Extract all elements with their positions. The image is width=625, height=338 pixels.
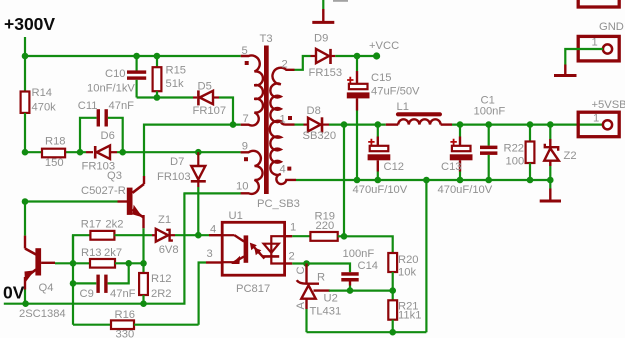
junction C15 bottom: [354, 177, 361, 184]
svg-text:1: 1: [592, 37, 598, 49]
tap pin 1: [281, 121, 295, 124]
junction U2 cathode: [303, 260, 310, 267]
transistor Q4 2SC1384: [19, 236, 66, 320]
svg-text:R15: R15: [166, 65, 187, 77]
resistor R22: [504, 125, 535, 180]
core: [264, 46, 269, 195]
capacitor C10: [87, 56, 146, 98]
wire +5VSB rail D8 to L1: [329, 123, 386, 125]
node +VCC endpoint: [373, 52, 380, 59]
svg-text:470uF/10V: 470uF/10V: [438, 184, 493, 196]
svg-text:C14: C14: [358, 260, 379, 272]
svg-text:R20: R20: [398, 254, 419, 266]
junction gnd drop: [423, 177, 430, 184]
resistor R18: [42, 136, 66, 170]
junction R21 bottom: [389, 329, 396, 336]
svg-text:PC817: PC817: [236, 283, 270, 295]
junction R22 top: [527, 121, 534, 128]
svg-text:2k2: 2k2: [105, 219, 123, 231]
phasing dot pin9: [244, 157, 248, 161]
junction C13 top: [457, 121, 464, 128]
wire row y=152 (R18/D6 to pin 9): [25, 151, 42, 153]
junction Z2 bottom: [547, 177, 554, 184]
phototransistor: [222, 234, 234, 236]
diode D5 FR107: [193, 81, 227, 118]
wire T3 pin2 jog to D9: [295, 56, 311, 70]
svg-text:SB320: SB320: [303, 130, 337, 142]
junction R13/R12/Q3e: [140, 260, 147, 267]
svg-text:2k7: 2k7: [104, 247, 122, 259]
resistor R14: [21, 56, 57, 152]
svg-text:3: 3: [207, 248, 213, 260]
wire D7 cathode down to opto pin4 node: [197, 187, 199, 235]
resistor R12: [139, 263, 171, 303]
junction R12 bottom: [140, 300, 147, 307]
wire Q4 collector vertical: [24, 202, 26, 236]
wire R19 feed vertical: [343, 125, 345, 237]
junction C10 top: [133, 53, 140, 60]
wire snubber row y=97.5: [137, 96, 193, 98]
connector +5VSB: [578, 99, 625, 137]
svg-text:PC_SB3: PC_SB3: [257, 198, 300, 210]
svg-text:R16: R16: [115, 309, 136, 321]
junction D6 right / C11: [119, 149, 126, 156]
svg-text:C13: C13: [441, 161, 462, 173]
wire Q4 emitter to 0V: [24, 290, 26, 304]
phasing dot pin4: [287, 167, 291, 171]
svg-text:T3: T3: [260, 33, 273, 45]
ground near connector: [554, 65, 577, 76]
wire gnd drop right: [425, 180, 427, 332]
svg-text:11k1: 11k1: [398, 310, 421, 322]
diode D7 FR103: [157, 152, 206, 187]
wire U2 anode to bottom rail: [305, 309, 307, 332]
svg-text:R13: R13: [81, 247, 102, 259]
wire opto pin3 down to R16: [199, 263, 206, 325]
svg-text:150: 150: [45, 157, 64, 169]
wire GND connector: [565, 49, 603, 65]
junction Z2 top: [547, 121, 554, 128]
wire R19 to R20: [344, 236, 393, 253]
junction R19/R20: [341, 233, 348, 240]
svg-text:L1: L1: [397, 101, 409, 113]
ground top-center: [312, 0, 334, 22]
svg-text:4: 4: [280, 164, 286, 176]
capacitor C11: [78, 100, 134, 152]
junction Z1/D7/pin4: [195, 232, 202, 239]
svg-text:2: 2: [282, 59, 288, 71]
svg-text:2SC1384: 2SC1384: [19, 308, 66, 320]
wire secondary ground rail y=180: [296, 179, 550, 181]
svg-text:C15: C15: [371, 72, 392, 84]
wire +VCC: [335, 55, 376, 57]
wire bottom rail TL431: [307, 331, 427, 333]
transformer T3: [236, 33, 300, 210]
connector GND: [578, 21, 624, 61]
svg-text:U2: U2: [324, 293, 338, 305]
capacitor C15 (electrolytic): [347, 56, 420, 180]
svg-text:R22: R22: [504, 143, 525, 155]
svg-text:10k: 10k: [398, 267, 416, 279]
svg-text:Z2: Z2: [564, 150, 577, 162]
winding 5-7 primary: [241, 55, 263, 125]
wire opto pin2 row: [292, 264, 350, 273]
svg-text:D6: D6: [101, 130, 115, 142]
wire pin7 row: [144, 125, 241, 176]
junction C13 bottom: [457, 177, 464, 184]
capacitor C13 (electrolytic): [438, 125, 493, 196]
svg-text:D8: D8: [307, 105, 321, 117]
junction Q4 emitter: [22, 300, 29, 307]
junction C14 bottom: [347, 287, 354, 294]
wire REF row: [329, 290, 393, 292]
optocoupler U1 PC817: [206, 210, 296, 295]
capacitor C14: [341, 248, 378, 291]
svg-text:10: 10: [236, 181, 248, 193]
junction R19 feed: [341, 121, 348, 128]
svg-text:FR153: FR153: [309, 67, 343, 79]
svg-text:Q3: Q3: [107, 170, 122, 182]
junction D5/pin7: [230, 121, 237, 128]
wire D5 to pin7 node: [219, 98, 233, 125]
winding 9-10: [241, 151, 263, 194]
capacitor C12 (electrolytic): [353, 125, 408, 196]
junction C12 bottom: [375, 177, 382, 184]
resistor R19: [292, 211, 344, 241]
shunt regulator U2 TL431: [295, 264, 341, 318]
connector partial top right: [578, 0, 619, 7]
resistor R21: [388, 291, 421, 333]
svg-text:Z1: Z1: [158, 214, 171, 226]
svg-text:47nF: 47nF: [109, 100, 135, 112]
svg-text:1: 1: [593, 112, 599, 124]
svg-text:U1: U1: [229, 210, 243, 222]
svg-text:R: R: [317, 272, 325, 284]
svg-text:R12: R12: [151, 273, 172, 285]
svg-text:330: 330: [116, 329, 135, 338]
wire +5VSB rail L1 to connector: [452, 123, 603, 125]
LED: [271, 236, 286, 244]
svg-text:4: 4: [210, 224, 216, 236]
svg-text:1: 1: [280, 114, 286, 126]
svg-text:47nF: 47nF: [110, 288, 136, 300]
wire 0V rail: [4, 193, 185, 303]
svg-text:0V: 0V: [3, 283, 25, 303]
svg-text:TL431: TL431: [310, 306, 342, 318]
wire Q3 emitter down: [142, 228, 144, 263]
secondary winding 2-1-4: [270, 68, 296, 184]
svg-text:51k: 51k: [166, 78, 184, 90]
light arrows: [253, 246, 261, 254]
diode D6 FR103: [82, 130, 118, 173]
svg-text:100nF: 100nF: [343, 248, 375, 260]
svg-text:47uF/50V: 47uF/50V: [371, 86, 420, 98]
ground right-mid: [540, 180, 561, 201]
zener Z2: [544, 125, 576, 180]
junction R22 bottom: [527, 177, 534, 184]
junction C1 top: [485, 121, 492, 128]
svg-text:C10: C10: [105, 68, 126, 80]
svg-text:1: 1: [290, 222, 296, 234]
svg-text:C5027-R: C5027-R: [81, 185, 126, 197]
wire top rail to T3 pin 5: [25, 55, 241, 57]
diode D9 FR153: [309, 33, 343, 80]
capacitor C1: [474, 95, 506, 181]
svg-text:5: 5: [242, 45, 248, 57]
junction C1 bottom: [485, 177, 492, 184]
junction R14 bottom: [22, 149, 29, 156]
wire Z1 to opto pin4: [175, 234, 209, 236]
junction R15 top: [154, 53, 161, 60]
partial text top: [333, 0, 348, 2]
wire +300V stub: [24, 37, 26, 56]
svg-text:Q4: Q4: [39, 282, 54, 294]
resistor R16: [73, 309, 199, 338]
svg-text:R18: R18: [45, 136, 66, 148]
svg-text:D9: D9: [314, 33, 328, 45]
resistor R15: [153, 56, 186, 98]
inductor L1: [386, 101, 452, 125]
svg-text:R17: R17: [81, 219, 102, 231]
svg-text:7: 7: [243, 113, 249, 125]
junction C12 top: [375, 121, 382, 128]
resistor R20: [388, 253, 418, 291]
capacitor C9: [70, 235, 136, 325]
svg-text:C: C: [295, 266, 307, 274]
transistor Q3 C5027-R: [22, 170, 144, 228]
phasing dot pin5: [245, 61, 249, 65]
svg-text:100: 100: [506, 156, 525, 168]
svg-text:470k: 470k: [32, 102, 57, 114]
junction C9 right branch: [125, 260, 132, 267]
svg-text:6V8: 6V8: [159, 244, 179, 256]
svg-text:100nF: 100nF: [474, 106, 506, 118]
svg-text:A: A: [295, 302, 307, 310]
svg-text:FR103: FR103: [157, 171, 191, 183]
svg-text:470uF/10V: 470uF/10V: [353, 184, 408, 196]
svg-text:2R2: 2R2: [151, 288, 172, 300]
junction D7 top: [195, 149, 202, 156]
zener Z1 6V8: [152, 214, 179, 256]
junction D6 left / C11: [77, 149, 84, 156]
svg-text:R14: R14: [32, 87, 53, 99]
diode D8 SB320: [295, 105, 337, 142]
junction R15 bottom: [154, 94, 161, 101]
svg-text:D7: D7: [170, 156, 184, 168]
svg-text:+VCC: +VCC: [369, 40, 399, 52]
svg-text:9: 9: [242, 141, 248, 153]
svg-text:10nF/1kV: 10nF/1kV: [87, 83, 135, 95]
svg-text:C11: C11: [78, 100, 98, 112]
svg-text:D5: D5: [198, 81, 212, 93]
junction C15 top: [354, 53, 361, 60]
resistor R17: [73, 219, 152, 264]
resistor R13: [55, 247, 144, 268]
wire T3 pin10 row: [183, 192, 241, 194]
svg-text:220: 220: [316, 220, 335, 232]
phasing dot pin1: [288, 116, 292, 120]
svg-text:FR107: FR107: [193, 105, 227, 117]
svg-text:GND: GND: [599, 21, 624, 33]
junction +300V/R14: [22, 53, 29, 60]
svg-text:+300V: +300V: [4, 14, 55, 34]
svg-text:C12: C12: [384, 161, 405, 173]
svg-text:C9: C9: [80, 288, 94, 300]
junction R20/R21: [389, 287, 396, 294]
svg-text:2: 2: [289, 251, 295, 263]
junction Q4 base / R17: [70, 260, 77, 267]
svg-text:+5VSB: +5VSB: [592, 99, 625, 111]
